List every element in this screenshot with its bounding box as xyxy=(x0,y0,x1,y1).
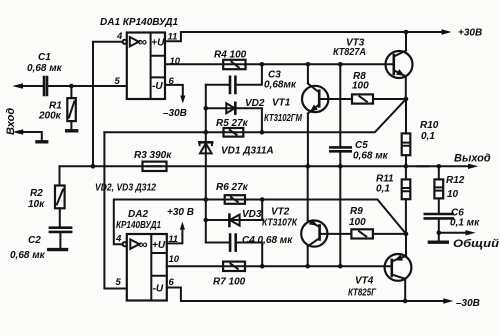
svg-text:+U: +U xyxy=(152,240,166,251)
svg-text:10: 10 xyxy=(170,56,181,67)
svg-text:R4 100: R4 100 xyxy=(214,50,247,61)
svg-text:10к: 10к xyxy=(28,199,45,210)
svg-text:+30В: +30В xyxy=(458,28,482,39)
svg-text:10: 10 xyxy=(447,189,459,200)
svg-text:0,1: 0,1 xyxy=(421,131,435,142)
svg-text:200к: 200к xyxy=(38,111,62,122)
svg-text:+30 В: +30 В xyxy=(167,207,194,218)
svg-text:КТ3102ГМ: КТ3102ГМ xyxy=(264,113,303,124)
svg-text:-U: -U xyxy=(152,81,163,92)
svg-text:0,68 мк: 0,68 мк xyxy=(10,250,46,261)
svg-text:100: 100 xyxy=(352,81,369,92)
svg-text:0,68 мк: 0,68 мк xyxy=(27,63,63,74)
svg-text:–30В: –30В xyxy=(456,298,480,309)
svg-text:Вход: Вход xyxy=(5,108,17,135)
svg-text:∞: ∞ xyxy=(138,34,147,49)
svg-text:R9: R9 xyxy=(350,206,363,217)
svg-text:R7 100: R7 100 xyxy=(213,277,246,288)
svg-text:DA2: DA2 xyxy=(128,209,148,220)
svg-text:C1: C1 xyxy=(38,52,51,63)
svg-text:VD1 Д311А: VD1 Д311А xyxy=(221,146,274,157)
svg-text:Общий: Общий xyxy=(453,238,499,250)
svg-text:11: 11 xyxy=(168,32,178,43)
svg-text:0,68 мк: 0,68 мк xyxy=(353,151,389,162)
svg-text:5: 5 xyxy=(115,76,121,87)
svg-text:R6 27к: R6 27к xyxy=(216,182,249,193)
svg-text:VT4: VT4 xyxy=(355,276,374,287)
svg-text:VD3: VD3 xyxy=(242,209,262,220)
svg-text:Выход: Выход xyxy=(454,153,491,165)
svg-text:0,1: 0,1 xyxy=(376,184,390,195)
svg-text:VD2: VD2 xyxy=(245,98,265,109)
svg-text:11: 11 xyxy=(168,234,178,245)
svg-text:VT1: VT1 xyxy=(272,98,291,109)
svg-text:КТ825Г: КТ825Г xyxy=(348,288,377,299)
svg-text:R10: R10 xyxy=(420,120,439,131)
svg-text:–30В: –30В xyxy=(163,108,187,119)
svg-text:C2: C2 xyxy=(28,235,41,246)
svg-text:C5: C5 xyxy=(355,140,368,151)
svg-text:R12: R12 xyxy=(446,175,465,186)
svg-text:6: 6 xyxy=(169,76,175,87)
svg-text:C4 0,68 мк: C4 0,68 мк xyxy=(242,235,293,246)
svg-text:6: 6 xyxy=(169,277,175,288)
svg-text:4: 4 xyxy=(116,31,123,42)
svg-text:100: 100 xyxy=(349,217,366,228)
svg-text:10: 10 xyxy=(169,254,180,265)
svg-text:КТ3107К: КТ3107К xyxy=(262,218,298,229)
svg-text:R3 390к: R3 390к xyxy=(134,150,172,161)
svg-text:R5 27к: R5 27к xyxy=(216,118,249,129)
svg-text:0,68мк: 0,68мк xyxy=(264,80,297,91)
svg-text:КР140ВУД1: КР140ВУД1 xyxy=(116,220,161,231)
svg-text:-U: -U xyxy=(153,283,164,294)
svg-text:КТ827А: КТ827А xyxy=(333,47,366,58)
svg-text:VT2: VT2 xyxy=(271,207,290,218)
svg-text:VD2, VD3 Д312: VD2, VD3 Д312 xyxy=(95,183,156,194)
svg-text:∞: ∞ xyxy=(138,237,147,252)
svg-text:+U: +U xyxy=(151,38,165,49)
svg-text:4: 4 xyxy=(115,234,122,245)
svg-text:DA1 КР140ВУД1: DA1 КР140ВУД1 xyxy=(100,17,178,28)
svg-text:5: 5 xyxy=(116,277,122,288)
svg-text:R2: R2 xyxy=(30,188,43,199)
svg-text:0,1 мк: 0,1 мк xyxy=(450,218,480,229)
